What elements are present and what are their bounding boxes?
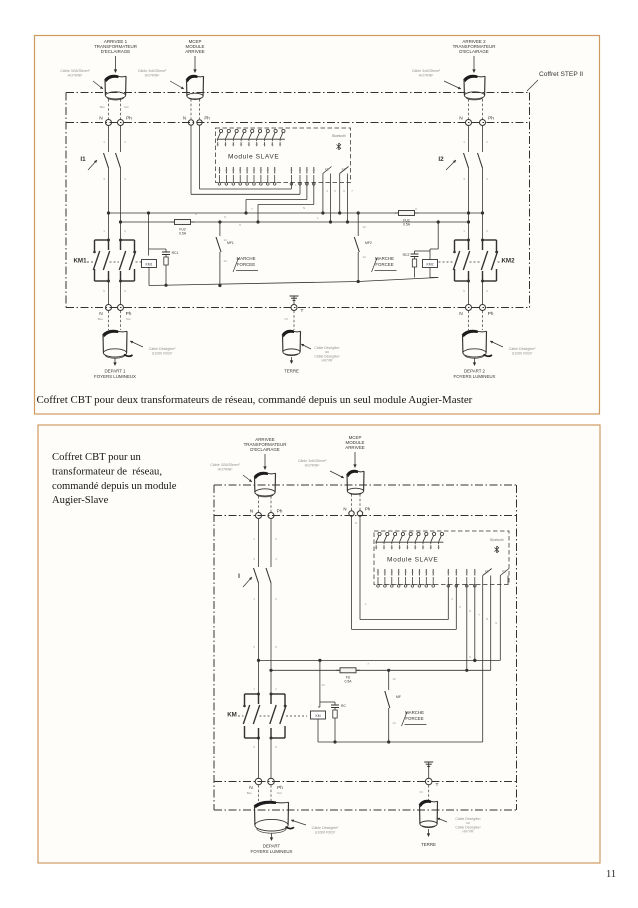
svg-text:Bleu: Bleu	[100, 105, 106, 109]
svg-text:TERRE: TERRE	[421, 842, 436, 847]
wires K2 to buses	[339, 183, 341, 214]
svg-text:Noir: Noir	[124, 105, 129, 109]
terminal Ph arrival 1	[118, 120, 124, 126]
svg-text:Ph: Ph	[277, 509, 283, 515]
svg-text:Bluetooth: Bluetooth	[490, 538, 504, 542]
svg-text:Ph: Ph	[488, 116, 494, 122]
svg-text:commandé depuis un module: commandé depuis un module	[52, 481, 177, 492]
svg-text:Câble Déséglée²: Câble Déséglée²	[509, 347, 537, 351]
svg-text:N: N	[459, 116, 463, 122]
cable tails departure bottom	[258, 785, 260, 801]
fuse FU bottom	[336, 669, 360, 671]
terminal Ph arrival 2 (mcep)	[197, 120, 202, 125]
terminal N arrival 1	[106, 120, 112, 126]
svg-text:FOYERS LUMINEUX: FOYERS LUMINEUX	[454, 374, 496, 379]
svg-text:Coffret STEP II: Coffret STEP II	[539, 71, 583, 78]
cable gland departure 1	[103, 330, 118, 336]
svg-text:TRANSFORMATEUR: TRANSFORMATEUR	[94, 44, 137, 49]
svg-text:Bleu: Bleu	[98, 317, 104, 321]
wires KM2 to departure 2 terminals	[468, 281, 470, 305]
label terre	[291, 357, 293, 363]
cable note departure 2	[490, 341, 503, 347]
svg-text:U1000 R02V: U1000 R02V	[315, 830, 336, 834]
earth symbol bottom	[428, 762, 430, 767]
arrow to gland 3	[473, 56, 475, 72]
svg-text:HO7RNF: HO7RNF	[305, 463, 321, 467]
cable gland departure 2	[462, 330, 477, 336]
arrow to gland 2	[194, 56, 196, 72]
module bottom pins right group bottom-module	[447, 577, 449, 585]
wire module pin to bus A	[306, 183, 308, 200]
svg-text:MF2: MF2	[365, 241, 372, 245]
cable note terre	[301, 344, 311, 349]
wire K1b to bus B bottom	[490, 585, 492, 671]
cable gland 2	[186, 75, 197, 81]
terminal N arrival transfo 2	[466, 120, 472, 126]
svg-text:RC2: RC2	[403, 253, 410, 257]
terminal N departure bottom	[255, 778, 262, 785]
module pin header top	[219, 129, 222, 132]
svg-text:Ph: Ph	[365, 507, 371, 512]
svg-text:I1: I1	[80, 156, 86, 163]
svg-text:Noir: Noir	[277, 791, 282, 795]
terminal Ph departure 2	[480, 305, 486, 311]
dash-dot line arrival terminals bottom	[214, 515, 517, 517]
svg-text:Module SLAVE: Module SLAVE	[228, 154, 279, 161]
svg-text:TRANSFORMATEUR: TRANSFORMATEUR	[453, 44, 496, 49]
svg-text:HO7RNF: HO7RNF	[419, 73, 435, 77]
svg-text:RC: RC	[341, 704, 346, 708]
cable gland terre	[282, 330, 293, 336]
cable tails gland b2	[351, 494, 353, 511]
svg-text:Coffret CBT pour un: Coffret CBT pour un	[52, 452, 141, 463]
svg-text:Coffret CBT pour deux transfor: Coffret CBT pour deux transformateurs de…	[37, 394, 473, 406]
svg-text:MARCHE: MARCHE	[236, 256, 255, 261]
bluetooth rune	[337, 143, 342, 150]
cable tails gland b1	[258, 496, 260, 512]
cable tails gland2 to terminals	[190, 99, 192, 119]
svg-text:DEPART 1: DEPART 1	[105, 369, 127, 374]
svg-text:HO7RNF: HO7RNF	[145, 73, 161, 77]
svg-text:MODULE: MODULE	[346, 440, 365, 445]
svg-text:I2: I2	[438, 156, 444, 163]
svg-text:ARRIVEE 2: ARRIVEE 2	[462, 39, 486, 44]
svg-text:RC1: RC1	[172, 251, 179, 255]
svg-text:MARCHE: MARCHE	[405, 710, 424, 715]
snubber RC bottom	[320, 701, 335, 703]
bluetooth rune bottom	[495, 546, 500, 553]
coil KM bottom	[319, 660, 321, 707]
svg-text:Ph: Ph	[277, 785, 283, 791]
svg-text:ou: ou	[325, 350, 329, 354]
svg-text:FU2: FU2	[403, 219, 410, 223]
svg-text:KM2: KM2	[501, 258, 515, 265]
svg-text:KM2: KM2	[427, 262, 434, 266]
svg-text:MF1: MF1	[227, 241, 234, 245]
svg-text:N: N	[99, 116, 103, 122]
wires K1 to buses	[322, 183, 324, 214]
svg-text:Câble 3x6/35mm²: Câble 3x6/35mm²	[412, 69, 441, 73]
cable tail terre	[293, 311, 295, 331]
control return line right	[358, 278, 438, 282]
svg-text:Câble 3G6/35mm²: Câble 3G6/35mm²	[60, 69, 90, 73]
svg-text:N: N	[195, 212, 197, 216]
svg-text:MCEP: MCEP	[349, 435, 362, 440]
wire K1 to return bottom	[482, 585, 484, 743]
svg-text:Module SLAVE: Module SLAVE	[387, 557, 438, 564]
svg-text:Ph: Ph	[126, 311, 132, 317]
control return line left	[149, 282, 358, 286]
cable tail terre bottom	[428, 785, 430, 800]
manual switch MF1	[219, 222, 221, 236]
coil KM1	[148, 213, 150, 256]
cable note terre bottom	[437, 818, 447, 822]
terminal Ph departure 1	[118, 305, 124, 311]
enclosure dash-dot bottom schematic	[214, 484, 517, 486]
svg-text:Ph: Ph	[204, 116, 210, 121]
svg-text:ARRIVEE 1: ARRIVEE 1	[104, 39, 128, 44]
terminal T	[293, 301, 295, 305]
cable gland 3	[464, 75, 477, 81]
module bottom pins right group	[290, 175, 292, 183]
svg-text:transformateur de réseau,: transformateur de réseau,	[52, 466, 162, 477]
manual switch MF2	[357, 213, 359, 236]
terminal N arrival bottom	[256, 513, 262, 519]
cable tails departure 1	[108, 311, 110, 331]
svg-text:DEPART: DEPART	[263, 844, 281, 849]
switch I2	[468, 126, 470, 153]
coil KM2	[437, 222, 439, 249]
svg-text:D'ECLAIRAGE: D'ECLAIRAGE	[101, 49, 130, 54]
svg-text:KM1: KM1	[146, 262, 153, 266]
svg-text:T: T	[436, 782, 439, 788]
svg-text:D'ECLAIRAGE: D'ECLAIRAGE	[459, 49, 488, 54]
switch I1	[108, 126, 110, 153]
label depart bottom	[271, 833, 273, 840]
dash-dot bus line through arrival terminals	[66, 122, 530, 124]
svg-text:ARRIVEE: ARRIVEE	[255, 437, 275, 442]
wires module to mcep terminals bottom	[359, 517, 361, 620]
module pin header top bottom-module	[378, 532, 381, 535]
svg-text:ARRIVEE: ARRIVEE	[345, 445, 365, 450]
cable gland departure bottom	[254, 801, 275, 807]
bus B bottom	[271, 669, 491, 671]
svg-text:KM: KM	[227, 712, 237, 719]
svg-text:D'ECLAIRAGE: D'ECLAIRAGE	[250, 447, 279, 452]
svg-text:FORCEE: FORCEE	[237, 262, 255, 267]
svg-text:U1000 R02V: U1000 R02V	[152, 351, 173, 355]
arrow to gland b1	[264, 454, 266, 469]
bus A bottom	[259, 659, 501, 661]
arrow to gland b2	[354, 452, 356, 467]
svg-text:N: N	[459, 311, 463, 317]
svg-text:H07VR: H07VR	[322, 359, 333, 363]
module bottom pins left group	[219, 175, 221, 183]
svg-text:Câble Déséglée²: Câble Déséglée²	[455, 825, 481, 829]
fuse FU2 right	[395, 212, 419, 214]
cable gland 1	[105, 75, 118, 81]
snubber RC2	[415, 250, 431, 252]
control return line bottom	[318, 741, 483, 743]
svg-text:FORCEE: FORCEE	[405, 716, 423, 721]
svg-text:U1000 R02V: U1000 R02V	[512, 351, 533, 355]
label depart 2	[474, 358, 476, 365]
svg-text:FORCEE: FORCEE	[375, 262, 393, 267]
svg-text:KM1: KM1	[73, 258, 87, 265]
label terre bottom	[428, 829, 430, 836]
svg-text:N: N	[343, 507, 346, 512]
svg-text:I: I	[238, 573, 240, 580]
svg-text:N: N	[183, 116, 186, 121]
switch I bottom	[258, 519, 260, 568]
terminal N departure 1	[106, 305, 112, 311]
bus A horizontal	[109, 212, 483, 214]
arrow to gland 1	[115, 56, 117, 72]
svg-text:N: N	[249, 785, 253, 791]
enclosure Coffret STEP II (dash-dot)	[66, 92, 530, 94]
svg-text:14: 14	[392, 721, 396, 725]
svg-text:13: 13	[362, 225, 366, 229]
terminal T bottom	[428, 767, 430, 778]
svg-text:Câble 3x6/35mm²: Câble 3x6/35mm²	[298, 459, 327, 463]
svg-text:0.5A: 0.5A	[403, 223, 411, 227]
wire K2 to bus A bottom	[499, 585, 501, 661]
svg-text:TERRE: TERRE	[284, 369, 299, 374]
svg-text:Bleu: Bleu	[247, 791, 253, 795]
svg-text:N: N	[250, 509, 254, 515]
terminal Ph arrival bottom	[268, 513, 274, 519]
svg-text:0.5A: 0.5A	[345, 680, 353, 684]
svg-text:Câble 3G6/35mm²: Câble 3G6/35mm²	[210, 463, 240, 467]
svg-text:Câble Déséglée²: Câble Déséglée²	[312, 826, 340, 830]
svg-text:13: 13	[392, 677, 396, 681]
dash-dot line through departure terminals	[66, 307, 530, 309]
svg-text:Câble Déséglée²: Câble Déséglée²	[149, 347, 177, 351]
svg-text:ou: ou	[466, 821, 470, 825]
svg-text:MF: MF	[396, 695, 401, 699]
earth symbol top schematic	[293, 296, 295, 301]
svg-text:FU2: FU2	[179, 228, 186, 232]
svg-text:Noir: Noir	[126, 317, 131, 321]
svg-text:Câble Déséglée²: Câble Déséglée²	[314, 346, 340, 350]
cable gland b2	[347, 470, 358, 476]
terminal Ph departure bottom	[268, 778, 275, 785]
svg-text:Câble 3x6/35mm²: Câble 3x6/35mm²	[138, 69, 167, 73]
svg-text:0.5A: 0.5A	[179, 232, 187, 236]
label depart 1	[114, 358, 116, 365]
svg-text:ARRIVEE: ARRIVEE	[185, 49, 205, 54]
terminal Ph arrival transfo 2	[480, 120, 486, 126]
svg-text:HO7RNF: HO7RNF	[218, 467, 234, 471]
svg-text:H07VR: H07VR	[463, 830, 474, 834]
snubber RC1	[149, 248, 167, 250]
bus B horizontal	[121, 221, 469, 223]
svg-text:Augier-Slave: Augier-Slave	[52, 495, 109, 506]
terminal Ph mcep bottom	[357, 511, 362, 516]
terminal N departure 2	[466, 305, 472, 311]
wires KM to departure terminals bottom	[258, 738, 260, 778]
wire module pin to bus B	[313, 183, 315, 205]
svg-text:N: N	[355, 521, 357, 525]
svg-text:13: 13	[321, 683, 325, 687]
svg-text:FU: FU	[346, 676, 351, 680]
svg-text:T: T	[301, 308, 304, 314]
svg-text:14: 14	[223, 259, 227, 263]
svg-text:Câble Déséglée²: Câble Déséglée²	[455, 817, 481, 821]
svg-text:DEPART 2: DEPART 2	[464, 369, 486, 374]
svg-text:Bluetooth: Bluetooth	[332, 134, 346, 138]
svg-text:MARCHE: MARCHE	[375, 256, 394, 261]
svg-text:FOYERS LUMINEUX: FOYERS LUMINEUX	[251, 849, 293, 854]
svg-text:N: N	[99, 311, 103, 317]
svg-text:TRANSFORMATEUR: TRANSFORMATEUR	[244, 442, 287, 447]
cable tails departure 2	[468, 311, 470, 331]
module bottom pins left group bottom-module	[377, 577, 379, 585]
cable note departure bottom	[291, 820, 306, 825]
dash-dot line departure terminals bottom	[214, 781, 517, 783]
figure 2 frame	[38, 425, 600, 863]
terminal N arrival 2 (mcep)	[188, 120, 193, 125]
figure 1 frame	[35, 36, 600, 415]
wire module pin to bus A bottom	[474, 585, 476, 661]
svg-text:FOYERS LUMINEUX: FOYERS LUMINEUX	[94, 374, 136, 379]
wires module to mcep terminals	[199, 126, 201, 190]
svg-text:14: 14	[362, 255, 366, 259]
svg-text:11: 11	[606, 869, 616, 880]
cable tails gland3 to terminals	[468, 99, 470, 119]
cable gland terre bottom	[419, 800, 430, 806]
svg-text:MCEP: MCEP	[189, 39, 202, 44]
svg-text:HO7RNF: HO7RNF	[68, 73, 84, 77]
module SLAVE box	[216, 128, 351, 183]
wire module pin to bus B bottom	[466, 585, 468, 671]
cable gland b1	[254, 472, 267, 478]
svg-text:13: 13	[223, 238, 227, 242]
svg-text:Ph: Ph	[126, 116, 132, 122]
fuse FU2 left	[171, 221, 195, 223]
svg-text:MODULE: MODULE	[186, 44, 205, 49]
wires KM1 to departure 1 terminals	[108, 281, 110, 305]
manual switch MF bottom	[388, 670, 390, 690]
svg-text:Câble Déséglée²: Câble Déséglée²	[314, 354, 340, 358]
terminal N mcep bottom	[349, 511, 354, 516]
cable note departure 1	[130, 341, 143, 347]
svg-text:Ph: Ph	[488, 311, 494, 317]
cable tails gland1 to terminals	[108, 99, 110, 119]
module SLAVE box bottom	[374, 531, 509, 585]
svg-text:N: N	[303, 206, 305, 210]
svg-text:KM: KM	[315, 714, 320, 718]
